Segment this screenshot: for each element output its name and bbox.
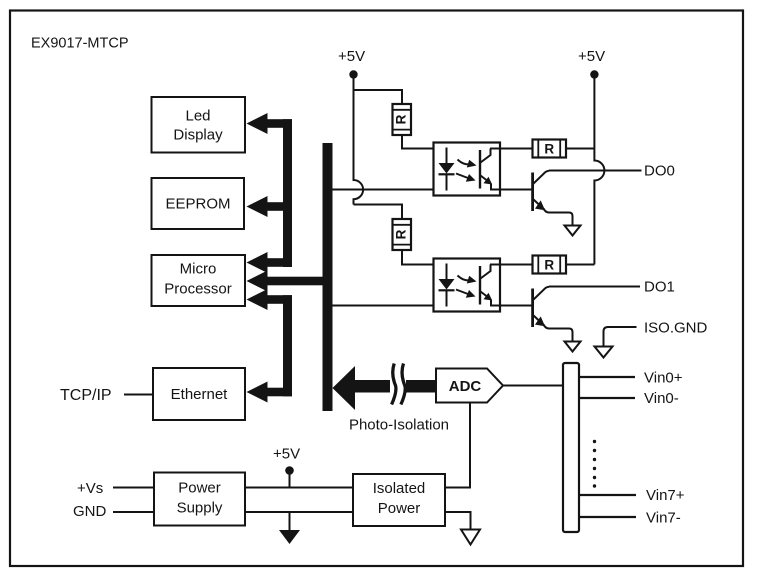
svg-text:TCP/IP: TCP/IP — [60, 387, 112, 404]
transistor Q1 — [533, 171, 581, 236]
ellipsis dots for channels 1..6 — [593, 440, 596, 488]
svg-text:Power: Power — [378, 500, 421, 517]
photo-isolation break marks — [392, 364, 406, 405]
svg-text:DO1: DO1 — [644, 279, 675, 296]
bus arrow to EEPROM — [247, 196, 293, 217]
connector CN1 analog inputs — [563, 363, 579, 532]
bus arrow to Micro Processor (top) — [247, 252, 293, 273]
svg-text:ISO.GND: ISO.GND — [644, 320, 708, 337]
wire Power Supply to Isolated Power (+5V) — [245, 487, 353, 489]
svg-text:GND: GND — [73, 503, 107, 520]
block Isolated Power — [353, 474, 445, 526]
bus arrow to ADC (photo-isolated) — [333, 366, 437, 410]
light arrow 2 — [456, 174, 468, 179]
svg-text:ADC: ADC — [449, 378, 482, 395]
block Led Display — [152, 97, 246, 153]
svg-text:Ethernet: Ethernet — [171, 386, 229, 403]
svg-text:Vin0+: Vin0+ — [644, 370, 683, 387]
wire +5V rail 1 vertical with hop over LED wire — [354, 78, 364, 205]
svg-text:Isolated: Isolated — [373, 480, 426, 497]
wire TCP/IP to Ethernet — [124, 394, 153, 396]
wire bus to opto ISO1 LED cathode — [333, 189, 447, 191]
wire +5V rail 1 branch to R1 — [354, 90, 403, 104]
data bus (photo-isolation barrier) — [323, 143, 333, 411]
optocoupler ISO1 — [434, 143, 501, 196]
svg-text:Vin0-: Vin0- — [644, 390, 679, 407]
svg-text:Photo-Isolation: Photo-Isolation — [349, 417, 449, 434]
svg-text:+5V: +5V — [273, 446, 300, 463]
svg-text:Supply: Supply — [177, 500, 223, 517]
ground isolated power — [445, 512, 480, 545]
wire bus to opto ISO2 LED cathode — [333, 305, 447, 307]
svg-text:Vin7-: Vin7- — [646, 510, 681, 527]
light arrow 1 — [458, 160, 470, 165]
svg-text:Micro: Micro — [180, 261, 217, 278]
wire +5V dot to rail — [289, 474, 291, 488]
svg-text:Led: Led — [185, 108, 210, 125]
transistor Q2 — [533, 287, 581, 352]
wire +Vs input — [113, 487, 154, 489]
svg-text:R: R — [393, 229, 408, 239]
wire GND input — [113, 511, 154, 513]
wire ADC to connector — [503, 385, 563, 387]
ADC U1 — [436, 369, 503, 403]
wire Power Supply to Isolated Power (return) — [245, 511, 353, 513]
node +5V rail 2 dot — [590, 70, 598, 78]
svg-text:+5V: +5V — [578, 48, 605, 65]
svg-text:R: R — [544, 142, 554, 157]
resistor R4 (horizontal) — [533, 256, 567, 274]
wire R3 to +5V rail 2 — [566, 148, 594, 150]
resistor R3 (horizontal) — [533, 140, 567, 158]
wire ISO.GND — [604, 327, 637, 347]
block Ethernet — [153, 368, 245, 420]
svg-text:Power: Power — [178, 480, 221, 497]
wire Vin0- — [579, 397, 635, 399]
wire ADC to Isolated Power — [445, 403, 470, 488]
wire +5V rail 1 to R2 — [354, 205, 403, 220]
bus arrow to Micro Processor (middle, from bus) — [247, 271, 323, 292]
wire R2 to opto ISO2 anode — [402, 250, 447, 265]
wire Vin7- — [579, 516, 636, 518]
bus arrow to Micro Processor (bottom) — [247, 289, 293, 310]
block Micro Processor — [152, 255, 246, 306]
wire R1 to opto ISO1 anode — [402, 135, 447, 149]
node +5V (power) dot — [285, 466, 294, 475]
ground power supply arrow — [279, 512, 300, 544]
resistor R1 (vertical) — [393, 104, 412, 135]
LED of optocoupler — [446, 148, 448, 164]
wire ISO2 emitter to Q2 base — [490, 305, 533, 307]
resistor R2 (vertical) — [393, 219, 412, 250]
phototransistor of optocoupler — [479, 150, 481, 189]
svg-text:Vin7+: Vin7+ — [646, 487, 685, 504]
wire DO1 — [549, 286, 640, 288]
wire Vin0+ — [579, 376, 635, 378]
block Power Supply — [154, 473, 245, 526]
svg-text:EEPROM: EEPROM — [165, 196, 230, 213]
bus trunk A (Led/EEPROM/Micro) — [283, 119, 292, 267]
svg-text:R: R — [393, 114, 408, 124]
wire ISO1 collector to R3 — [490, 148, 533, 150]
node +5V rail 1 dot — [349, 70, 357, 78]
wire ISO1 emitter to Q1 base — [490, 189, 533, 191]
svg-text:+Vs: +Vs — [77, 480, 103, 497]
svg-text:Processor: Processor — [164, 281, 232, 298]
svg-text:+5V: +5V — [338, 48, 365, 65]
wire +5V rail 2 vertical with hop over DO0 wire — [594, 78, 604, 265]
svg-text:Display: Display — [173, 127, 223, 144]
wire DO0 — [549, 170, 642, 172]
bus arrow to Ethernet — [247, 382, 293, 403]
wire R4 to +5V rail 2 — [566, 264, 594, 266]
wire ISO2 collector to R4 — [490, 264, 533, 266]
svg-text:DO0: DO0 — [644, 163, 675, 180]
wire Vin7+ — [579, 494, 636, 496]
ground ISO.GND symbol — [595, 347, 613, 358]
svg-text:EX9017-MTCP: EX9017-MTCP — [31, 36, 129, 52]
bus trunk B (Micro/Ethernet) — [283, 295, 292, 396]
block EEPROM — [152, 178, 245, 229]
optocoupler ISO2 — [434, 259, 501, 312]
bus arrow to Led Display — [247, 113, 293, 134]
